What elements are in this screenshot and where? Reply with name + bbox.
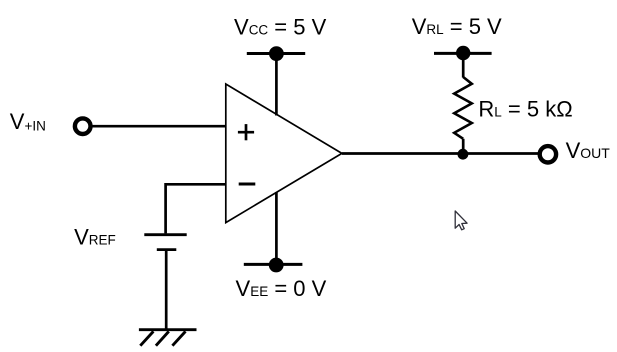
svg-text:VCC = 5 V: VCC = 5 V: [234, 15, 327, 40]
terminal VOUT: [540, 146, 556, 162]
op-amp plus pin mark: [238, 124, 254, 140]
VEE supply bar: [244, 263, 303, 266]
battery VREF short plate: [157, 248, 177, 251]
op-amp minus pin mark: [239, 183, 256, 186]
battery VREF long plate: [144, 233, 186, 236]
svg-text:VRL = 5 V: VRL = 5 V: [412, 14, 502, 39]
wire op-amp minus input (horizontal): [166, 183, 227, 186]
wire op-amp output to VOUT: [342, 152, 540, 155]
junction dot VCC: [269, 46, 284, 61]
junction dot VEE: [269, 258, 284, 273]
ground: [139, 330, 197, 346]
wire battery to ground: [165, 250, 168, 330]
wire resistor bottom to output node: [462, 139, 465, 154]
mouse cursor: [455, 211, 467, 230]
wire minus input down to VREF battery: [164, 183, 167, 233]
resistor RL: [454, 77, 472, 139]
svg-text:RL = 5 kΩ: RL = 5 kΩ: [478, 96, 572, 121]
junction dot VRL: [456, 46, 470, 60]
wire op-amp bottom to VEE: [275, 192, 278, 264]
junction dot output node: [458, 149, 469, 160]
VRL supply bar: [434, 52, 492, 55]
wire VRL to resistor top: [462, 53, 465, 78]
svg-text:VEE = 0 V: VEE = 0 V: [236, 276, 327, 301]
terminal V+IN: [75, 118, 91, 134]
VCC supply bar: [247, 52, 305, 55]
wire V+IN to op-amp + input: [91, 125, 227, 128]
wire VCC to op-amp top: [275, 54, 278, 116]
op-amp U1: [226, 84, 342, 223]
